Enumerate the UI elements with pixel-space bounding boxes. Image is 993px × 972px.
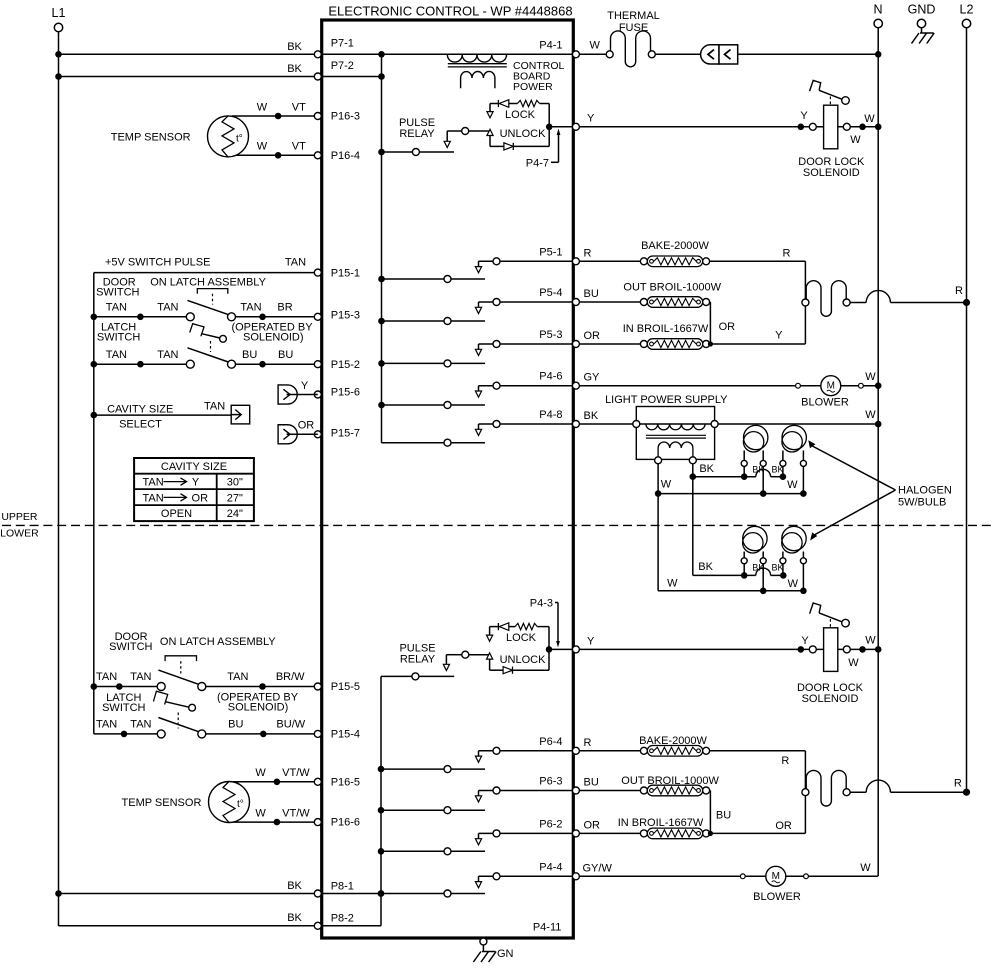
svg-text:BU: BU [716,809,731,821]
svg-text:24": 24" [227,508,243,520]
wire hi-limit upper to L2 R [850,285,970,306]
pin P15-4 [314,728,360,740]
wire P7-2 internal to bus [321,76,381,78]
pin P4-7 [526,123,580,169]
svg-text:BAKE-2000W: BAKE-2000W [641,240,709,252]
relay contact P5-4 [382,299,573,325]
svg-text:27": 27" [227,492,243,504]
svg-text:SOLENOID: SOLENOID [803,167,860,179]
svg-text:N: N [873,3,882,17]
svg-text:L2: L2 [960,3,974,17]
wire thermal fuse to connector [655,53,700,55]
svg-text:BK: BK [287,912,302,924]
svg-text:P15-6: P15-6 [331,387,360,399]
wire bake lower to hi-limit [710,751,806,834]
svg-text:BK: BK [287,63,302,75]
svg-text:W: W [255,807,266,819]
svg-text:BLOWER: BLOWER [753,891,801,903]
wire P4-6 GY to blower upper [579,371,881,389]
pin P16-6 [314,817,360,829]
svg-text:Y: Y [587,112,595,124]
pin P16-4 [314,150,360,162]
svg-text:W: W [590,39,601,51]
svg-text:TAN: TAN [204,400,225,412]
latch actuator lower [102,691,299,728]
wire L2 vertical bus [966,28,968,793]
svg-text:PULSE: PULSE [399,642,435,654]
svg-text:GY: GY [584,372,601,384]
svg-text:R: R [584,737,592,749]
svg-text:BK: BK [699,463,714,475]
svg-text:OUT BROIL-1000W: OUT BROIL-1000W [623,282,721,294]
svg-text:P5-4: P5-4 [539,287,562,299]
pin P16-3 [314,111,360,123]
svg-text:OUT BROIL-1000W: OUT BROIL-1000W [621,775,719,787]
svg-text:UPPER: UPPER [1,511,38,523]
svg-text:+5V SWITCH PULSE: +5V SWITCH PULSE [105,256,210,268]
latch switch lower (P15-4 row) [94,718,314,738]
wire P16-4 sensor upper [232,141,314,159]
cavity size table [134,458,254,521]
svg-text:Y: Y [192,477,200,489]
svg-text:TAN: TAN [227,671,248,683]
wire P16-5 sensor lower [233,767,314,785]
svg-text:GY/W: GY/W [583,862,613,874]
svg-text:W: W [865,634,876,646]
svg-text:30": 30" [227,477,243,489]
svg-text:P6-3: P6-3 [539,776,562,788]
blower motor upper [796,376,864,409]
halogen bulb lower-right [780,526,807,591]
svg-text:TAN: TAN [96,671,117,683]
svg-text:TAN: TAN [106,302,127,314]
pin P5-1 [539,246,579,264]
svg-text:BK: BK [584,410,599,422]
pin P8-2 [314,913,354,930]
svg-text:VT: VT [292,101,306,113]
wire connector to N [738,51,882,58]
pin P4-4 [539,861,579,880]
pin P15-7 [314,427,360,439]
halogen callout label [808,440,952,540]
relay contact P6-2 [381,830,572,855]
svg-text:R: R [954,778,962,790]
svg-text:LOWER: LOWER [0,528,39,540]
hi-limit thermostat upper [802,281,850,317]
svg-text:TEMP SENSOR: TEMP SENSOR [111,131,191,143]
pin P4-11 [533,922,562,934]
svg-text:RELAY: RELAY [400,654,436,666]
svg-text:THERMAL: THERMAL [607,10,660,22]
pin GN ground pin [473,938,513,962]
wire P5-4 BU [579,288,640,302]
svg-text:BU/W: BU/W [276,719,305,731]
svg-text:LOCK: LOCK [505,109,536,121]
label UPPER [1,511,38,523]
svg-text:SWITCH: SWITCH [97,332,140,344]
pin P4-6 [539,371,579,390]
svg-text:L1: L1 [52,6,66,20]
svg-text:BK: BK [287,880,302,892]
wire L1 vertical bus [58,32,60,926]
svg-text:P8-1: P8-1 [331,881,354,893]
pin P8-1 [314,881,354,898]
svg-text:W: W [257,141,268,153]
svg-text:OR: OR [584,330,601,342]
wire P4-4 GY/W to blower lower [579,862,878,877]
relay contact P4-4 [475,873,572,888]
wire W line lower halogen [658,577,807,594]
pin P6-4 [539,736,579,755]
svg-text:M: M [772,871,780,882]
pin P15-2 [314,359,360,371]
svg-text:W: W [787,479,798,491]
label control board title [328,4,572,19]
svg-text:TAN: TAN [106,349,127,361]
svg-text:P7-2: P7-2 [331,60,354,72]
lock/unlock diode network upper [487,100,573,150]
temp sensor RT2 lower [122,782,250,823]
svg-text:P8-2: P8-2 [331,913,354,925]
pin P4-8 [539,409,579,428]
relay contact P6-3 [381,787,572,814]
temp sensor RT1 upper [111,116,249,157]
svg-text:RELAY: RELAY [399,128,435,140]
svg-text:R: R [783,247,791,259]
svg-text:Y: Y [587,635,595,647]
svg-text:P4-6: P4-6 [539,371,562,383]
wire hi-limit lower to L2 R [850,778,970,796]
wire P4-3 Y to door lock solenoid lower [579,634,878,669]
wire P6-2 OR [579,819,640,833]
electronic control board outline [322,20,574,938]
wire P4-7 Y to door lock solenoid upper [579,110,878,146]
svg-text:W: W [865,409,876,421]
svg-text:W: W [257,101,268,113]
wire P4-1 W to thermal fuse [579,39,606,54]
wire W secondary upper [655,464,807,591]
connector to P15-7 [278,419,318,444]
svg-text:W: W [667,577,678,589]
svg-text:P4-8: P4-8 [539,409,562,421]
svg-text:P15-1: P15-1 [331,267,360,279]
svg-text:Y: Y [801,635,809,647]
svg-text:P5-3: P5-3 [539,329,562,341]
svg-text:SOLENOID: SOLENOID [802,693,859,705]
svg-text:P15-7: P15-7 [331,427,360,439]
svg-text:P16-6: P16-6 [331,817,360,829]
wire P15-1 +5V switch pulse [94,256,314,272]
svg-text:P16-3: P16-3 [331,111,360,123]
pin P7-2 [314,60,354,80]
svg-text:Y: Y [800,110,808,122]
junction dots internal bus upper [378,51,385,408]
cavity size select connector box [231,405,250,424]
wire out broil to in broil lower [710,791,732,834]
svg-text:TAN: TAN [143,492,164,504]
door lock solenoid lower [797,603,882,705]
pin P15-6 [314,387,360,399]
svg-text:TAN: TAN [96,719,117,731]
svg-text:OR: OR [584,819,601,831]
svg-text:BK: BK [698,561,713,573]
svg-text:LIGHT POWER SUPPLY: LIGHT POWER SUPPLY [605,394,728,406]
svg-text:W: W [255,767,266,779]
svg-text:VT/W: VT/W [282,807,310,819]
latch bracket upper [197,289,228,305]
wire BK line lower halogen [693,561,787,579]
svg-text:P6-4: P6-4 [539,736,562,748]
svg-text:W: W [848,657,859,669]
svg-text:P6-2: P6-2 [539,818,562,830]
node N terminal [873,3,882,28]
bake element upper BAKE-2000W [640,240,709,267]
svg-text:W: W [850,134,861,146]
svg-text:W: W [788,578,799,590]
svg-text:VT/W: VT/W [282,767,310,779]
svg-text:BR/W: BR/W [276,671,305,683]
relay contact P4-6 [382,382,573,408]
wire N vertical bus [877,28,879,877]
connector J1 (double chevron) [701,45,738,64]
svg-text:TAN: TAN [143,477,164,489]
svg-text:t°: t° [236,133,243,144]
halogen bulb upper-right [780,425,807,493]
latch actuator upper [97,321,313,352]
node L2 terminal [960,3,974,28]
door lock solenoid upper [798,80,882,179]
svg-text:FUSE: FUSE [619,22,648,34]
svg-text:BU: BU [228,719,243,731]
svg-text:ELECTRONIC CONTROL - WP #44488: ELECTRONIC CONTROL - WP #4448868 [328,4,572,19]
svg-text:P4-4: P4-4 [539,861,562,873]
wire P5-1 R [579,247,640,261]
pulse relay K2 lower [381,642,490,680]
connector to P15-6 [278,380,318,404]
svg-text:M: M [827,380,835,391]
hi-limit thermostat lower [802,770,850,806]
svg-text:LOCK: LOCK [506,632,537,644]
wire P8-2 BK [59,912,382,926]
svg-text:IN BROIL-1667W: IN BROIL-1667W [618,817,704,829]
svg-text:P16-5: P16-5 [331,776,360,788]
pin P6-3 [539,776,579,795]
svg-text:TAN: TAN [285,256,306,268]
cavity size select wire [94,400,231,430]
latch bracket lower [165,656,196,674]
pin P4-3 [530,598,580,653]
wire in broil upper to hi-limit [708,330,806,347]
in broil element lower IN BROIL-1667W [618,817,710,839]
light power supply transformer T2 [605,394,728,464]
svg-text:P4-7: P4-7 [526,157,549,169]
svg-text:TAN: TAN [130,671,151,683]
svg-text:5W/BULB: 5W/BULB [898,496,946,508]
transformer T1 control board power [447,55,564,93]
svg-text:GN: GN [497,948,514,960]
svg-text:R: R [584,247,592,259]
svg-text:VT: VT [292,141,306,153]
svg-text:TEMP SENSOR: TEMP SENSOR [122,797,202,809]
wire P7-1 BK from L1 [59,41,315,55]
svg-text:Y: Y [301,380,309,392]
svg-text:SOLENOID): SOLENOID) [243,332,304,344]
svg-text:ON LATCH ASSEMBLY: ON LATCH ASSEMBLY [160,636,276,648]
svg-text:t°: t° [237,799,244,810]
svg-text:Y: Y [775,330,783,342]
lock/unlock diode network lower [487,623,573,674]
wire internal bus lower [378,676,385,925]
svg-text:SWITCH: SWITCH [96,287,139,299]
svg-text:P5-1: P5-1 [539,246,562,258]
halogen bulb lower-left [741,526,767,591]
node L1 terminal [52,6,66,32]
svg-text:GND: GND [908,3,936,17]
svg-text:W: W [865,371,876,383]
wire P16-6 sensor lower [233,807,314,825]
svg-text:SWITCH: SWITCH [102,702,145,714]
svg-text:TAN: TAN [240,302,261,314]
junction dots on L1 [55,51,62,897]
svg-text:SELECT: SELECT [119,419,162,431]
pin P15-3 [314,309,360,321]
svg-text:TAN: TAN [130,719,151,731]
svg-text:ON LATCH ASSEMBLY: ON LATCH ASSEMBLY [150,276,266,288]
svg-text:P4-3: P4-3 [530,598,553,610]
svg-text:P15-3: P15-3 [331,309,360,321]
blower motor lower [740,866,808,903]
wire P8-1 BK [59,880,486,897]
svg-text:UNLOCK: UNLOCK [500,128,547,140]
svg-text:OR: OR [298,419,315,431]
wire P7-1 internal to P4-1 [321,53,572,55]
svg-text:W: W [864,113,875,125]
svg-text:UNLOCK: UNLOCK [500,654,547,666]
svg-text:P4-1: P4-1 [539,39,562,51]
thermal fuse F1 [606,10,660,67]
wire P5-3 OR [579,330,640,344]
svg-text:P4-11: P4-11 [533,922,562,934]
pin P16-5 [314,776,360,788]
latch switch upper (P15-2 row) [94,348,314,368]
svg-text:BAKE-2000W: BAKE-2000W [639,735,707,747]
pin P6-2 [539,818,579,837]
wire BK secondary upper [690,463,787,576]
svg-text:OR: OR [192,492,209,504]
wire out broil to in broil upper [710,302,736,344]
label LOWER [0,528,39,540]
svg-text:P16-4: P16-4 [331,150,360,162]
wire P6-3 BU [579,777,640,791]
relay contact P5-1 [382,258,573,283]
svg-text:R: R [781,755,789,767]
svg-text:BU: BU [584,288,599,300]
svg-text:CAVITY SIZE: CAVITY SIZE [107,403,173,415]
pin P5-3 [539,329,579,348]
pin P15-5 [314,681,360,693]
svg-text:P15-4: P15-4 [331,728,360,740]
svg-text:TAN: TAN [157,349,178,361]
out broil element upper OUT BROIL-1000W [623,282,721,308]
svg-text:IN BROIL-1667W: IN BROIL-1667W [623,323,709,335]
pin P5-4 [539,287,579,306]
svg-text:OR: OR [719,321,736,333]
relay contact P4-8 [382,421,573,447]
svg-text:BU: BU [584,777,599,789]
svg-text:PULSE: PULSE [399,117,435,129]
svg-text:POWER: POWER [513,81,553,93]
svg-text:BR: BR [277,302,292,314]
svg-text:SWITCH: SWITCH [109,641,152,653]
svg-text:P15-2: P15-2 [331,359,360,371]
svg-text:SOLENOID): SOLENOID) [228,702,289,714]
wire P7-2 BK from L1 [59,63,315,77]
svg-text:CAVITY SIZE: CAVITY SIZE [161,461,227,473]
upper/lower oven separator dashed line [2,524,991,526]
pin P15-1 [314,267,360,279]
ground GND terminal [908,3,936,44]
svg-text:P7-1: P7-1 [331,38,354,50]
bake element lower BAKE-2000W [639,735,710,756]
wire P4-8 BK to light power supply [579,409,881,427]
svg-text:HALOGEN: HALOGEN [898,484,952,496]
relay contact P5-3 [382,341,573,367]
wire internal bus upper [381,54,383,442]
svg-text:W: W [860,862,871,874]
wire in broil lower to hi-limit [708,820,806,836]
svg-text:BU: BU [278,349,293,361]
svg-text:BU: BU [242,349,257,361]
pulse relay K1 upper [382,117,491,156]
door switch lower (P15-5 row) [94,631,314,691]
pin P4-1 [539,39,579,58]
wire bake upper to hi-limit [710,247,806,344]
wire switch feed vertical [91,273,98,734]
out broil element lower OUT BROIL-1000W [621,775,719,796]
svg-text:OPEN: OPEN [161,508,192,520]
wire P6-4 R [579,737,640,751]
svg-text:BLOWER: BLOWER [801,396,849,408]
svg-text:R: R [955,285,963,297]
halogen bulb upper-left [741,425,768,493]
svg-text:BK: BK [287,41,302,53]
wire P16-3 sensor upper [232,101,314,119]
svg-text:TAN: TAN [157,302,178,314]
relay contact P6-4 [381,747,572,772]
svg-text:W: W [661,479,672,491]
in broil element upper IN BROIL-1667W [623,323,710,349]
pin P7-1 [314,38,354,58]
svg-text:OR: OR [775,820,792,832]
door switch upper (P15-3 row) [94,276,314,321]
svg-text:P15-5: P15-5 [331,681,360,693]
